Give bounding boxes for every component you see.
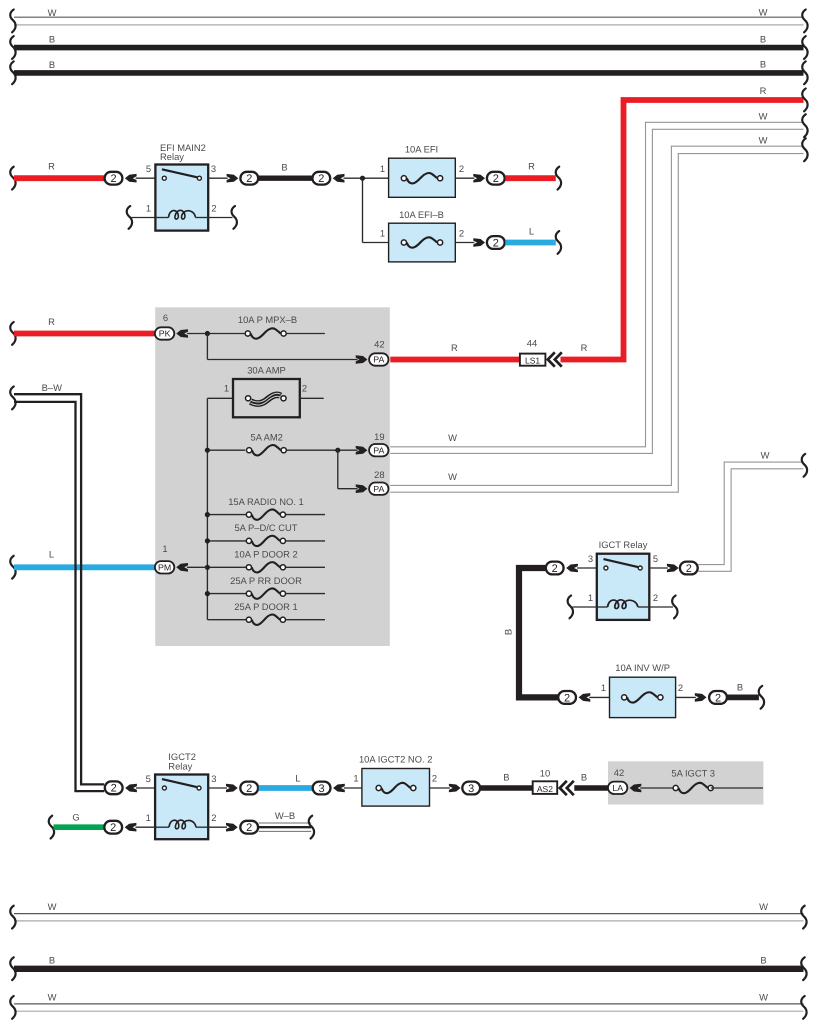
arrow into connector — [333, 174, 345, 183]
svg-text:B: B — [760, 34, 766, 45]
break R left EFI row — [10, 167, 15, 190]
svg-text:1: 1 — [380, 227, 385, 238]
wire to PA 28 — [338, 488, 358, 490]
svg-text:5A IGCT 3: 5A IGCT 3 — [671, 768, 715, 779]
svg-text:LS1: LS1 — [525, 356, 540, 366]
svg-text:2: 2 — [318, 173, 324, 185]
in-line connector LS1 pin 44 — [520, 354, 546, 366]
fuse 10A EFI element — [401, 173, 442, 183]
svg-text:19: 19 — [374, 431, 384, 442]
svg-text:B: B — [49, 954, 55, 965]
svg-text:W: W — [448, 432, 457, 443]
svg-text:W: W — [759, 111, 768, 122]
wire L blue — [259, 785, 312, 791]
svg-text:42: 42 — [614, 767, 624, 778]
connector 3 after fuse — [462, 782, 480, 795]
wire to relay pin 5 — [136, 787, 155, 789]
svg-text:R: R — [451, 342, 458, 353]
fuse 5A IGCT 3 element — [673, 783, 713, 793]
connector PM pin 1 — [155, 561, 174, 573]
svg-text:R: R — [528, 161, 535, 172]
wire to junction — [187, 333, 245, 335]
fuse row 5A P&#8211;D/C CUT — [207, 540, 248, 542]
svg-text:W: W — [759, 135, 768, 146]
svg-text:5: 5 — [146, 773, 151, 784]
svg-text:10A EFI: 10A EFI — [405, 143, 438, 154]
wire B thick from IGCT relay down to INV W/P — [519, 568, 558, 697]
svg-text:2: 2 — [302, 382, 307, 393]
wire pin 2 to break — [208, 217, 232, 219]
svg-text:W: W — [759, 901, 768, 912]
svg-text:Relay: Relay — [160, 151, 184, 162]
junction node — [360, 176, 365, 181]
wire to EFI fuse — [344, 177, 389, 179]
svg-text:1: 1 — [162, 543, 167, 554]
svg-text:28: 28 — [374, 469, 384, 480]
wire AM2 row — [207, 449, 245, 451]
wire from bus to AMP pin1 — [207, 397, 233, 399]
connector LA pin 42 — [608, 782, 627, 794]
svg-text:2: 2 — [715, 692, 721, 704]
connector 2 left of EFI MAIN2 relay — [105, 172, 123, 185]
fusible link element 30A AMP — [246, 393, 287, 405]
break L wire left — [10, 556, 15, 579]
svg-text:10A P DOOR 2: 10A P DOOR 2 — [234, 549, 297, 560]
svg-text:1: 1 — [224, 382, 229, 393]
arrow to connector — [473, 238, 485, 247]
wire to pin 1 — [135, 826, 155, 828]
arrow to PA 19 — [356, 446, 368, 455]
svg-text:B: B — [760, 954, 766, 965]
connector 2 on G wire — [104, 821, 122, 834]
svg-text:10A IGCT2 NO. 2: 10A IGCT2 NO. 2 — [359, 754, 432, 765]
svg-text:1: 1 — [601, 682, 606, 693]
wire pin 2 to arrow — [208, 826, 227, 828]
wire to fuse pin 1 — [589, 696, 609, 698]
svg-text:R: R — [581, 342, 588, 353]
junction left AM2 — [205, 448, 210, 453]
wire R output — [505, 175, 556, 181]
wire pin 2 to break — [649, 606, 673, 608]
wire fuse to arrow — [455, 177, 474, 179]
svg-text:1: 1 — [353, 772, 358, 783]
svg-text:1: 1 — [146, 812, 151, 823]
arrow to connector — [226, 784, 238, 793]
arrow into connector — [125, 174, 137, 183]
arrow to connector — [449, 784, 461, 793]
arrow into connector — [333, 784, 345, 793]
svg-text:2: 2 — [111, 783, 117, 795]
svg-text:5: 5 — [653, 553, 658, 564]
svg-text:2: 2 — [493, 173, 499, 185]
break W-B right — [309, 816, 314, 839]
wire pin3 to arrow — [208, 787, 227, 789]
break B1 left — [10, 36, 15, 59]
svg-text:1: 1 — [380, 163, 385, 174]
break B-W left — [10, 387, 15, 410]
connector 2 left of INV W/P fuse — [558, 691, 576, 704]
relay IGCT box — [597, 554, 650, 620]
break W3 right — [802, 454, 807, 477]
svg-text:L: L — [295, 773, 300, 784]
chevrons AS2 — [560, 781, 574, 795]
relay coil EFI MAIN2 — [169, 210, 196, 219]
junction block box (gray) — [155, 307, 390, 646]
svg-text:W: W — [448, 471, 457, 482]
break W2 right — [802, 138, 807, 161]
break B INV out — [759, 686, 764, 709]
svg-text:3: 3 — [211, 163, 216, 174]
svg-text:30A AMP: 30A AMP — [247, 364, 286, 375]
fuse 10A IGCT2 NO. 2 box — [362, 769, 430, 807]
wire pin3 to arrow — [208, 177, 228, 179]
svg-text:2: 2 — [246, 783, 252, 795]
wire between circles hidden, pin 2 out — [300, 397, 324, 399]
wire G green — [54, 824, 104, 830]
connector 2 after EFI-B fuse — [487, 236, 505, 249]
break Bb right — [801, 957, 806, 980]
svg-text:LA: LA — [612, 783, 623, 793]
arrow to connector — [226, 823, 238, 832]
break IGCT coil left — [568, 596, 573, 619]
svg-text:10A EFI–B: 10A EFI–B — [399, 209, 444, 220]
svg-text:2: 2 — [246, 822, 252, 834]
arrow into connector — [125, 784, 137, 793]
svg-text:W–B: W–B — [275, 810, 295, 821]
svg-text:2: 2 — [653, 592, 658, 603]
svg-text:B: B — [49, 34, 55, 45]
connector 2 before junction — [312, 172, 330, 185]
wire to PA 42 — [207, 359, 357, 361]
wire 5A IGCT 3 out — [711, 787, 763, 789]
connector 2 after IGCT2 — [240, 782, 258, 795]
break B2 right — [802, 61, 807, 84]
wire W bus bottom 2 — [14, 1003, 804, 1005]
connector 2 right of INV W/P fuse — [709, 691, 727, 704]
svg-text:R: R — [760, 85, 767, 96]
arrow into LA — [630, 784, 642, 793]
svg-text:3: 3 — [211, 773, 216, 784]
fuse 10A EFI box — [389, 158, 456, 197]
wire W2 nested to PA 28 — [390, 146, 803, 485]
break R left PK row — [10, 322, 15, 345]
svg-text:W: W — [759, 7, 768, 18]
svg-text:3: 3 — [319, 783, 325, 795]
svg-text:2: 2 — [110, 822, 116, 834]
svg-text:W: W — [759, 992, 768, 1003]
connector 3 before fuse — [313, 782, 331, 795]
wire B to LA — [574, 785, 608, 791]
fuse row 25A P DOOR 1 — [207, 619, 248, 621]
svg-text:5A AM2: 5A AM2 — [251, 432, 283, 443]
arrow into PM — [176, 563, 188, 572]
svg-text:B: B — [581, 771, 587, 782]
svg-text:42: 42 — [374, 339, 384, 350]
fuse 10A INV W/P element — [622, 692, 663, 702]
wire down from PK junction — [206, 334, 208, 360]
wire down to PA28 row — [337, 450, 339, 489]
svg-text:5A P–D/C CUT: 5A P–D/C CUT — [234, 522, 297, 533]
wire fuse out — [286, 333, 325, 335]
svg-text:44: 44 — [527, 338, 537, 349]
svg-text:PA: PA — [373, 355, 384, 365]
wire to pin 1 — [132, 217, 156, 219]
wire W bus bottom 1 — [14, 913, 804, 915]
connector PK pin 6 — [155, 327, 174, 339]
svg-text:2: 2 — [552, 563, 558, 575]
svg-text:B–W: B–W — [42, 382, 62, 393]
svg-text:5: 5 — [146, 163, 151, 174]
svg-text:L: L — [49, 548, 54, 559]
wire down to EFI-B fuse — [362, 178, 364, 242]
arrow into connector — [579, 693, 591, 702]
svg-text:B: B — [49, 59, 55, 70]
svg-text:15A RADIO NO. 1: 15A RADIO NO. 1 — [228, 496, 304, 507]
fuse 5A AM2 element — [247, 445, 287, 455]
wire L to PM — [14, 564, 155, 570]
break coil right — [232, 206, 237, 229]
break IGCT coil right — [672, 596, 677, 619]
wire fuse to arrow — [455, 242, 474, 244]
svg-text:Relay: Relay — [168, 761, 192, 772]
connector PA pin 28 — [369, 483, 388, 495]
svg-text:2: 2 — [678, 682, 683, 693]
wire fuse to arrow — [676, 696, 696, 698]
wire W-B — [259, 822, 312, 824]
relay IGCT2 contact — [162, 779, 201, 790]
arrow to connector — [695, 693, 707, 702]
svg-text:B: B — [504, 629, 515, 635]
arrow to connector — [667, 564, 679, 573]
arrow to PA 42 — [356, 355, 368, 364]
break Wb1 left — [10, 906, 15, 929]
svg-text:W: W — [48, 901, 57, 912]
svg-text:B: B — [760, 59, 766, 70]
svg-text:1: 1 — [588, 592, 593, 603]
vertical bus in J/B — [206, 398, 208, 619]
svg-text:G: G — [72, 812, 79, 823]
break B2 left — [10, 61, 15, 84]
svg-text:R: R — [48, 161, 55, 172]
connector 2 after relay — [240, 172, 258, 185]
wire B bus 2 — [14, 70, 804, 76]
svg-text:PA: PA — [373, 445, 384, 455]
svg-text:2: 2 — [432, 772, 437, 783]
svg-text:10: 10 — [540, 767, 550, 778]
wire to 5A IGCT 3 fuse — [640, 787, 673, 789]
svg-text:2: 2 — [110, 173, 116, 185]
gray box 5A IGCT 3 — [608, 761, 763, 804]
break Bb left — [10, 957, 15, 980]
break coil left — [127, 206, 132, 229]
connector 2 on W-B wire — [240, 821, 258, 834]
break W bus left — [10, 10, 15, 33]
svg-text:2: 2 — [459, 227, 464, 238]
arrow into connector — [125, 823, 137, 832]
fuse 10A IGCT2 NO. 2 element — [376, 783, 416, 793]
fuse row 25A P RR DOOR — [207, 593, 248, 595]
svg-text:PM: PM — [158, 563, 171, 573]
relay IGCT contact — [604, 559, 643, 570]
svg-text:2: 2 — [246, 173, 252, 185]
wire junction to EFI-B fuse — [363, 242, 389, 244]
wire pin5 to arrow — [649, 567, 668, 569]
svg-text:1: 1 — [146, 202, 151, 213]
svg-text:W: W — [48, 992, 57, 1003]
svg-text:25A P RR DOOR: 25A P RR DOOR — [230, 575, 302, 586]
svg-text:B: B — [503, 771, 509, 782]
break L EFI-B out — [556, 231, 561, 254]
connector 2 from B-W wire — [105, 781, 123, 794]
in-line connector AS2 pin 10 — [533, 781, 558, 794]
svg-text:W: W — [761, 449, 770, 460]
wire B bus 1 — [14, 45, 804, 51]
wire to relay pin 3 — [577, 567, 597, 569]
svg-text:6: 6 — [163, 312, 168, 323]
svg-text:L: L — [529, 225, 534, 236]
relay contact switch — [162, 169, 202, 180]
svg-text:3: 3 — [588, 553, 593, 564]
connector 2 after EFI fuse — [487, 172, 505, 185]
wire B to AS2 — [481, 785, 533, 791]
relay EFI MAIN2 box — [155, 165, 208, 231]
connector PA pin 42 — [369, 353, 388, 365]
arrow into PK — [176, 329, 188, 338]
arrow to connector — [227, 174, 239, 183]
break R EFI out — [556, 167, 561, 190]
break R right — [802, 89, 807, 112]
fuse row 15A RADIO NO. 1 — [207, 514, 248, 516]
fusible link 30A AMP box — [233, 379, 300, 417]
svg-text:B: B — [737, 682, 743, 693]
svg-text:PK: PK — [159, 329, 171, 339]
svg-text:10A INV W/P: 10A INV W/P — [615, 662, 670, 673]
arrow to connector — [473, 174, 485, 183]
junction right AM2 — [335, 448, 340, 453]
fuse 10A EFI-B element — [401, 237, 442, 247]
break W1 right — [802, 114, 807, 137]
svg-text:W: W — [48, 7, 57, 18]
wire B-W from top left down to IGCT2 relay — [14, 394, 104, 784]
wire fuse to arrow — [430, 787, 450, 789]
wire L output — [505, 240, 556, 246]
svg-text:AS2: AS2 — [537, 784, 553, 794]
wire R from top right to LS1 — [561, 100, 804, 360]
break W bus right — [802, 10, 807, 33]
svg-text:3: 3 — [468, 783, 474, 795]
break Wb2 left — [10, 996, 15, 1019]
relay coil IGCT — [608, 600, 638, 609]
connector 2 left of IGCT relay — [546, 562, 564, 575]
break G left — [49, 816, 54, 839]
chevrons LS1 — [548, 352, 562, 366]
svg-text:2: 2 — [564, 692, 570, 704]
svg-text:2: 2 — [211, 202, 216, 213]
wire R to connector — [14, 175, 104, 181]
svg-text:25A P DOOR 1: 25A P DOOR 1 — [234, 601, 297, 612]
relay coil IGCT2 — [169, 820, 196, 829]
wire W3 from right to IGCT relay pin 5 — [698, 462, 803, 564]
wire R to PK — [14, 331, 155, 337]
arrow to PA 28 — [356, 484, 368, 493]
svg-text:PA: PA — [373, 484, 384, 494]
fuse row 10A P DOOR 2 — [207, 566, 248, 568]
wire PM to bus — [187, 566, 207, 568]
arrow into connector — [566, 564, 578, 573]
wire to pin 1 — [572, 606, 596, 608]
wire W1 nested to PA 19 — [390, 122, 803, 447]
svg-text:2: 2 — [493, 237, 499, 249]
relay IGCT2 box — [155, 775, 208, 840]
wire to fuse — [344, 787, 362, 789]
wire B out — [728, 695, 759, 701]
break Wb1 right — [801, 906, 806, 929]
wire B between connectors — [259, 176, 312, 181]
svg-text:IGCT Relay: IGCT Relay — [599, 539, 648, 550]
connector PA pin 19 — [369, 444, 388, 456]
svg-text:B: B — [281, 162, 287, 173]
fuse 10A INV W/P box — [610, 677, 676, 717]
svg-text:2: 2 — [211, 812, 216, 823]
svg-text:2: 2 — [686, 563, 692, 575]
svg-text:10A P MPX–B: 10A P MPX–B — [238, 314, 297, 325]
wire to relay pin 5 — [136, 177, 156, 179]
svg-text:R: R — [48, 316, 55, 327]
fuse 10A P MPX-B element — [245, 328, 286, 338]
fuse 10A EFI-B box — [389, 223, 456, 262]
wire R to LS1 (red) — [390, 357, 520, 363]
wire B bus bottom — [14, 966, 804, 972]
connector 2 right of IGCT relay — [680, 562, 698, 575]
break Wb2 right — [801, 996, 806, 1019]
svg-text:2: 2 — [459, 163, 464, 174]
junction node PK row — [205, 331, 210, 336]
break B1 right — [802, 36, 807, 59]
wire W bus top — [14, 16, 804, 18]
